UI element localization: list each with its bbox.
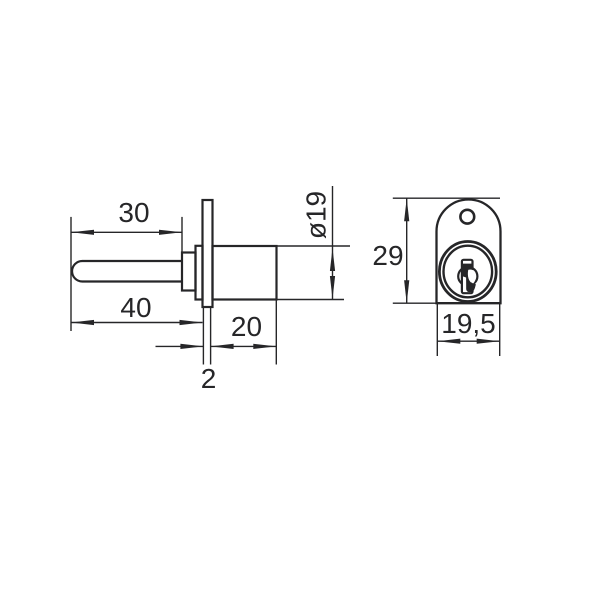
dim line 40 — [71, 322, 203, 324]
extension line 19.5 right — [499, 303, 501, 356]
extension line 29 bottom — [393, 302, 437, 304]
extension line flange right — [210, 307, 212, 365]
arrow dia19 up — [330, 248, 335, 271]
svg-text:29: 29 — [372, 240, 403, 271]
dim line 19.5 — [437, 340, 499, 342]
mounting hole — [460, 210, 474, 224]
right view face plate outline — [437, 200, 501, 304]
collar step 1 — [182, 253, 196, 291]
keyhole wings — [458, 267, 477, 286]
arrow 19.5 right — [477, 339, 500, 344]
arrow 2 — [180, 344, 203, 349]
extension line flange left — [202, 307, 204, 365]
arrow 20 right — [253, 344, 276, 349]
svg-text:2: 2 — [201, 363, 217, 394]
arrow 29 up — [404, 198, 409, 221]
extension line body bottom right — [277, 299, 345, 301]
svg-text:19,5: 19,5 — [441, 308, 496, 339]
arrow 20 left — [211, 344, 234, 349]
cylinder face outer ring — [439, 242, 496, 302]
arrow 19.5 left — [437, 339, 460, 344]
dim line 20 — [211, 345, 277, 347]
arrow 30 right — [159, 230, 182, 235]
key notch white crescent — [468, 270, 476, 284]
extension line left (pin tip) — [70, 217, 72, 331]
arrow 40 right — [180, 320, 203, 325]
svg-text:ø19: ø19 — [301, 191, 332, 239]
dim leader dia19 — [332, 186, 334, 299]
arrow dia19 down — [330, 276, 335, 299]
arrow 30 left — [71, 230, 94, 235]
svg-text:30: 30 — [118, 197, 149, 228]
pin (plunger) — [72, 261, 182, 282]
extension line 29 top — [393, 197, 500, 199]
extension line body top right — [277, 245, 351, 247]
svg-text:20: 20 — [231, 311, 262, 342]
keyhole slot — [462, 260, 473, 293]
dim line 29 — [406, 198, 408, 303]
key silhouette — [462, 264, 476, 293]
cylinder face inner ring — [444, 246, 493, 298]
extension line pin end — [181, 217, 183, 253]
extension line body right — [275, 300, 277, 365]
arrow 29 down — [404, 280, 409, 303]
arrow 40 left — [71, 320, 94, 325]
extension line 19.5 left — [436, 303, 438, 356]
flange plate — [203, 200, 213, 307]
svg-text:40: 40 — [120, 292, 151, 323]
cylinder body — [213, 246, 277, 300]
dim leader 2 — [156, 345, 204, 347]
collar step 2 — [196, 246, 203, 300]
dim line 30 — [71, 231, 182, 233]
